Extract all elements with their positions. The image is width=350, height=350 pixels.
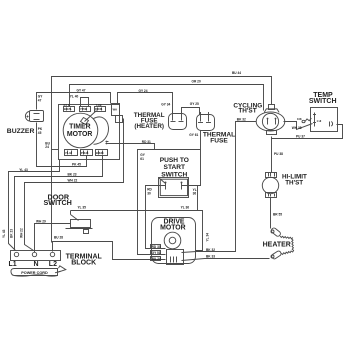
svg-text:R:C61: R:C61 <box>95 107 103 111</box>
wire GY61: right fuse down to push-to-start right terminal <box>182 131 201 186</box>
svg-text:1 HI: 1 HI <box>317 119 322 123</box>
svg-text:BK 23: BK 23 <box>9 229 13 238</box>
svg-text:BU 24: BU 24 <box>152 257 161 261</box>
wire YL43: timer bottom to terminal block L1 <box>9 160 60 251</box>
timer bottom connector 2 <box>81 150 93 156</box>
svg-text:HEATER: HEATER <box>263 241 291 248</box>
wire PK45: buzzer bottom to timer <box>37 123 87 167</box>
heater element <box>270 227 293 260</box>
svg-text:GY 34: GY 34 <box>161 103 170 107</box>
svg-text:47: 47 <box>38 98 42 102</box>
wire YL40 jumper on timer top <box>81 98 89 107</box>
svg-text:GY 61: GY 61 <box>189 133 198 137</box>
svg-text:BU 28: BU 28 <box>54 235 63 239</box>
svg-text:WH 22: WH 22 <box>19 228 23 238</box>
svg-text:PU 37: PU 37 <box>296 134 305 138</box>
svg-text:WH: WH <box>113 108 117 112</box>
svg-text:Y:L43: Y:L43 <box>65 151 72 155</box>
svg-text:24: 24 <box>45 145 49 149</box>
svg-text:36: 36 <box>193 192 197 196</box>
svg-text:(HEATER): (HEATER) <box>134 123 164 130</box>
timer right pin ticks <box>106 141 109 143</box>
wire BU28: terminal block L2 to bottom rail <box>53 242 166 260</box>
power cord <box>11 266 66 276</box>
temp switch box <box>311 108 338 132</box>
wire BR55: hi-limit to heater <box>270 198 272 229</box>
svg-text:YL 43: YL 43 <box>19 168 28 172</box>
svg-text:TH'ST: TH'ST <box>238 108 256 115</box>
wire OR20: timer top to cycling thermostat collar <box>70 85 264 111</box>
svg-text:PUSH TO: PUSH TO <box>160 157 189 164</box>
svg-text:YL 34: YL 34 <box>206 233 210 242</box>
wire GY25 bridge between thermal fuses <box>182 108 200 115</box>
wire WH29: door switch to terminal block N <box>35 224 71 253</box>
wire BK23: timer bottom to terminal block L1 <box>15 156 103 251</box>
svg-text:GY 47: GY 47 <box>77 88 86 92</box>
svg-text:BK 23: BK 23 <box>68 173 77 177</box>
wire BK33: drive motor to heater lug <box>182 259 270 261</box>
timer assembly box <box>59 105 120 160</box>
timer cam lobe <box>94 117 109 144</box>
svg-text:10K: 10K <box>297 117 302 121</box>
svg-text:PK 45: PK 45 <box>72 163 81 167</box>
svg-text:B:G7L: B:G7L <box>64 107 72 111</box>
svg-text:L2: L2 <box>49 261 57 268</box>
svg-text:61: 61 <box>140 157 144 161</box>
svg-text:MOTOR: MOTOR <box>67 131 93 138</box>
svg-text:BK 32: BK 32 <box>206 248 215 252</box>
wire PU37: cycling thermostat bottom to temp switch <box>272 125 343 139</box>
svg-text:PU 38: PU 38 <box>274 152 283 156</box>
buzzer BZ <box>25 111 43 122</box>
svg-text:BLOCK: BLOCK <box>71 260 96 267</box>
svg-text:POWER CORD: POWER CORD <box>21 271 48 275</box>
svg-text:L1: L1 <box>9 261 17 268</box>
wire stub from riser into timer left edge <box>52 149 59 151</box>
door switch <box>66 211 93 234</box>
svg-text:YL 36: YL 36 <box>181 206 190 210</box>
wire RD30: push-to-start left terminal down to drive motor <box>146 186 166 249</box>
timer bottom connector 3 <box>96 150 108 156</box>
thermal fuse (heater) symbol <box>169 111 187 130</box>
wire GY47: buzzer top to timer WH connector <box>37 93 111 110</box>
timer motor circle <box>63 113 98 148</box>
svg-text:BK 33: BK 33 <box>206 254 215 258</box>
svg-text:GY R: GY R <box>64 103 70 107</box>
svg-text:OR 20: OR 20 <box>192 80 201 84</box>
svg-text:WH 29: WH 29 <box>36 219 46 223</box>
svg-text:SWITCH: SWITCH <box>309 98 337 105</box>
thermal fuse symbol <box>197 112 215 131</box>
svg-text:BU 44: BU 44 <box>232 71 241 75</box>
svg-text:FUSE: FUSE <box>210 137 228 144</box>
drive motor <box>152 218 196 265</box>
svg-text:RD 31: RD 31 <box>142 140 151 144</box>
svg-text:T-CB: T-CB <box>96 103 102 107</box>
svg-text:N: N <box>34 261 39 268</box>
svg-text:TH'ST: TH'ST <box>285 180 303 187</box>
wire WH22: timer WH connector to terminal block N <box>25 119 124 251</box>
wire PU38: cycling thermostat to hi-limit <box>271 139 273 173</box>
svg-text:YL 35: YL 35 <box>78 206 87 210</box>
svg-text:BR 55: BR 55 <box>273 213 282 217</box>
svg-text:GY 24: GY 24 <box>139 89 148 93</box>
timer top connector 1 <box>64 103 75 111</box>
wire WH38: cycling thermostat to temp switch <box>284 122 313 130</box>
svg-text:SWITCH: SWITCH <box>44 198 72 207</box>
temp switch bimetal <box>297 117 311 123</box>
wire YL35/YL34: door switch line across and down into drive motor <box>71 211 203 251</box>
wire GY24: timer WH connector to left thermal fuse <box>118 93 173 114</box>
svg-text:WH 38: WH 38 <box>292 126 302 130</box>
svg-text:GY 51: GY 51 <box>152 251 161 255</box>
svg-text:BUZZER: BUZZER <box>7 128 35 135</box>
svg-text:TIMER: TIMER <box>69 124 90 131</box>
timer bottom connector 1 <box>65 150 78 156</box>
svg-text:BK 32: BK 32 <box>237 117 246 121</box>
svg-text:B:K23: B:K23 <box>96 151 104 155</box>
svg-text:45: 45 <box>38 131 42 135</box>
timer WH connector <box>112 104 123 123</box>
cycling thermostat symbol <box>256 105 285 135</box>
drive motor wire tags RD30 / GY51 / BU24 <box>151 245 161 262</box>
svg-text:WH 22: WH 22 <box>68 179 78 183</box>
svg-text:Y:T4L: Y:T4L <box>80 107 87 111</box>
terminal block <box>11 251 61 261</box>
svg-text:MOTOR: MOTOR <box>160 225 186 232</box>
hi-limit thermostat symbol <box>262 173 278 198</box>
wire GY51: junction line to drive motor <box>138 150 201 255</box>
svg-text:YL 43: YL 43 <box>2 229 6 238</box>
svg-text:START: START <box>164 164 186 171</box>
push-to-start switch <box>159 178 189 198</box>
svg-text:SWITCH: SWITCH <box>161 171 187 178</box>
wire BK32: drive motor to cycling thermostat <box>182 122 257 253</box>
svg-text:RD 30: RD 30 <box>152 245 161 249</box>
timer pointer <box>85 111 97 122</box>
svg-text:P:K45: P:K45 <box>81 151 89 155</box>
wire RD31: timer right pins to junction <box>109 144 155 150</box>
timer top connector 2 <box>80 107 91 112</box>
svg-text:30: 30 <box>147 191 151 195</box>
wire YL36 drop from push-to-start to door-switch line <box>197 186 199 211</box>
wire BU44: L2 riser, top rail to cycling thermostat <box>52 77 272 243</box>
svg-text:GY 25: GY 25 <box>190 102 199 106</box>
svg-text:YL 40: YL 40 <box>70 95 79 99</box>
timer top connector 3 <box>95 103 106 111</box>
